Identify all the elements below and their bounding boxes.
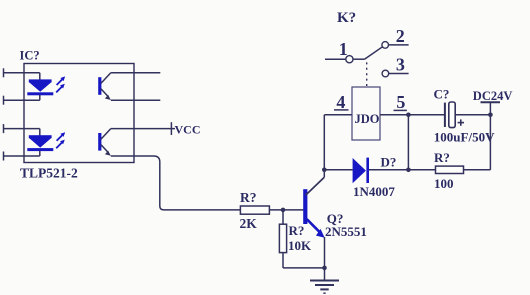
phototransistor T2 collector diagonal xyxy=(101,129,111,140)
wire R2 bottom xyxy=(282,253,284,268)
LED D2 anode lead xyxy=(39,129,41,137)
wire cathode LED1 xyxy=(4,99,40,101)
phototransistor T1 emitter diagonal xyxy=(101,89,108,97)
wire switch pin 1 xyxy=(325,58,346,60)
svg-text:R?: R? xyxy=(434,150,450,165)
node emitter junction xyxy=(322,266,327,271)
wire node to capacitor xyxy=(408,114,445,116)
wire collector vertical xyxy=(323,115,325,177)
transistor Q1 collector diagonal xyxy=(306,177,325,195)
optocoupler IC1 box xyxy=(24,64,134,163)
switch arm pivot wire xyxy=(353,58,365,60)
phototransistor T2 emitter arrow xyxy=(105,151,111,156)
wire R3 to right vertical xyxy=(464,169,491,171)
svg-text:1N4007: 1N4007 xyxy=(353,184,395,199)
wire anode LED2 xyxy=(4,128,40,130)
LED D1 anode lead xyxy=(39,73,41,81)
svg-text:1: 1 xyxy=(339,39,348,59)
svg-text:JDO: JDO xyxy=(355,112,380,126)
svg-text:5: 5 xyxy=(396,92,405,112)
LED D2 emission arrow 2 xyxy=(56,140,65,149)
LED D2 anode bar xyxy=(29,135,52,138)
wire switch pin 2 xyxy=(389,44,409,46)
svg-text:2N5551: 2N5551 xyxy=(325,224,367,239)
LED D1 cathode bar xyxy=(27,92,53,95)
pin stub cathode LED1 xyxy=(3,96,5,105)
node pin5 junction xyxy=(406,113,411,118)
resistor R2 10K body xyxy=(279,224,286,252)
wire bottom to emitter node xyxy=(283,267,325,269)
node DC24V junction xyxy=(488,113,493,118)
relay coil K1 box JDO xyxy=(352,87,380,140)
svg-text:3: 3 xyxy=(396,55,405,75)
svg-text:R?: R? xyxy=(240,190,257,205)
transistor Q1 emitter arrow xyxy=(316,229,325,238)
LED D1 triangle xyxy=(29,82,52,92)
svg-text:4: 4 xyxy=(336,92,345,112)
switch contact 1 xyxy=(346,56,353,63)
wire left vertical xyxy=(407,115,409,170)
node diode cathode junction xyxy=(406,168,411,173)
svg-text:100: 100 xyxy=(434,176,454,191)
wire anode LED1 xyxy=(4,72,40,74)
wire T1 emitter stub xyxy=(111,99,161,101)
wire right vertical xyxy=(489,115,491,170)
diode D3 cathode bar xyxy=(366,158,369,183)
wire node to R3 xyxy=(408,169,435,171)
svg-text:R?: R? xyxy=(289,223,305,238)
svg-text:TLP521-2: TLP521-2 xyxy=(20,166,78,181)
wire coil pin 4 xyxy=(324,114,352,116)
switch contact 3 xyxy=(382,70,389,77)
svg-text:2: 2 xyxy=(396,26,405,46)
LED D1 cathode lead xyxy=(39,95,41,100)
LED D2 emission arrow 1 xyxy=(57,132,66,141)
svg-text:VCC: VCC xyxy=(175,122,201,136)
LED D2 triangle xyxy=(29,138,52,148)
phototransistor T1 collector diagonal xyxy=(101,73,111,84)
wire diode cathode to node xyxy=(369,169,408,171)
wire emitter vertical xyxy=(324,237,326,268)
svg-text:100uF/50V: 100uF/50V xyxy=(434,130,495,145)
svg-text:C?: C? xyxy=(434,86,450,101)
wire switch pin 3 xyxy=(389,73,409,75)
wire to diode anode xyxy=(324,169,352,171)
wire coil pin 5 xyxy=(380,114,408,116)
capacitor C1 left plate xyxy=(444,103,446,127)
phototransistor T1 emitter arrow xyxy=(105,95,111,100)
wire T2 collector to VCC xyxy=(111,128,175,130)
DC24V terminal stem xyxy=(489,102,491,115)
DC24V terminal bar xyxy=(481,101,501,103)
wire T1 collector stub xyxy=(111,72,161,74)
switch contact 2 xyxy=(382,42,389,49)
switch arm xyxy=(365,47,383,59)
switch actuator dashed link xyxy=(366,62,368,86)
phototransistor T2 emitter diagonal xyxy=(101,145,108,153)
ground xyxy=(310,281,339,294)
LED D2 cathode bar xyxy=(27,148,53,151)
svg-text:DC24V: DC24V xyxy=(473,89,513,103)
pin stub cathode LED2 xyxy=(3,152,5,161)
wire base junction to R2 xyxy=(282,210,284,224)
svg-text:D?: D? xyxy=(381,154,397,169)
phototransistor T1 base bar xyxy=(98,77,101,95)
label pin 5 xyxy=(394,92,407,112)
wire capacitor to DC24V xyxy=(455,114,490,116)
wire R1 to base xyxy=(269,209,303,211)
node base junction xyxy=(281,208,286,213)
svg-text:2K: 2K xyxy=(240,216,258,231)
LED D2 cathode lead xyxy=(39,151,41,156)
wire T2 emitter down to base resistor xyxy=(111,156,241,210)
VCC plus bar xyxy=(170,122,172,135)
LED D1 anode bar xyxy=(29,79,52,82)
LED D1 emission arrow 2 xyxy=(56,84,65,93)
svg-text:K?: K? xyxy=(337,10,356,26)
capacitor C1 right plate xyxy=(449,102,455,128)
phototransistor T2 base bar xyxy=(98,133,101,151)
resistor R3 100 body xyxy=(436,166,464,173)
svg-text:10K: 10K xyxy=(288,238,312,253)
svg-text:IC?: IC? xyxy=(20,49,40,63)
pin stub anode LED1 xyxy=(3,68,5,77)
diode D3 triangle xyxy=(353,158,366,183)
label pin 4 xyxy=(334,92,349,112)
capacitor plus sign xyxy=(458,119,464,125)
transistor Q1 emitter diagonal xyxy=(307,219,320,232)
resistor R1 2K body xyxy=(240,206,269,214)
pin stub anode LED2 xyxy=(3,124,5,133)
transistor Q1 base bar xyxy=(303,189,307,224)
wire cathode LED2 xyxy=(4,155,40,157)
ground stem xyxy=(324,268,326,280)
LED D1 emission arrow 1 xyxy=(57,76,66,85)
node collector/diode junction xyxy=(322,168,327,173)
